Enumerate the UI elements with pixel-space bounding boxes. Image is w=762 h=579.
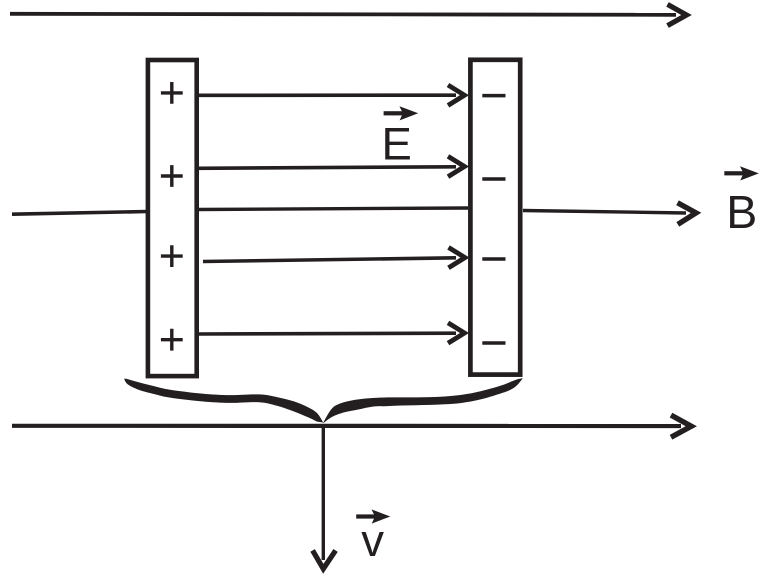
arrowhead E field line 3 bbox=[449, 247, 466, 267]
vector arrow over B bbox=[724, 166, 759, 180]
wire middle B field line center segment bbox=[198, 208, 468, 210]
plus symbol 3 bbox=[161, 245, 183, 267]
minus symbol 1 bbox=[482, 94, 505, 98]
E field line 1 bbox=[198, 93, 456, 97]
brace under plates right half bbox=[323, 378, 522, 423]
arrowhead velocity down bbox=[313, 550, 336, 568]
plus symbol 2 bbox=[161, 165, 183, 187]
svg-text:E: E bbox=[382, 119, 412, 170]
plate right negative bbox=[470, 60, 520, 375]
plate left positive bbox=[148, 60, 197, 376]
wire bottom B field line bbox=[12, 424, 681, 428]
arrowhead E field line 2 bbox=[448, 156, 465, 176]
arrowhead middle B field line bbox=[678, 203, 697, 225]
E field line 3 bbox=[203, 258, 456, 262]
arrowhead E field line 4 bbox=[448, 323, 465, 343]
arrowhead bottom B field line bbox=[671, 415, 691, 437]
svg-text:B: B bbox=[726, 186, 757, 238]
plus symbol 1 bbox=[161, 82, 183, 104]
wire top B field line bbox=[10, 14, 676, 15]
minus symbol 2 bbox=[482, 177, 505, 181]
E field line 2 bbox=[198, 167, 456, 169]
wire middle B field line left segment bbox=[12, 212, 147, 215]
brace under plates left half bbox=[124, 379, 323, 423]
arrowhead E field line 1 bbox=[448, 85, 465, 105]
vector arrow over E bbox=[384, 106, 419, 120]
vector arrow over v bbox=[356, 509, 390, 523]
arrowhead top B field line bbox=[668, 4, 687, 25]
plus symbol 4 bbox=[161, 329, 183, 351]
wire middle B field line right segment bbox=[523, 211, 686, 214]
E field line 4 bbox=[198, 331, 456, 335]
minus symbol 3 bbox=[482, 257, 505, 261]
wire velocity arrow shaft bbox=[322, 424, 325, 560]
minus symbol 4 bbox=[482, 341, 505, 345]
